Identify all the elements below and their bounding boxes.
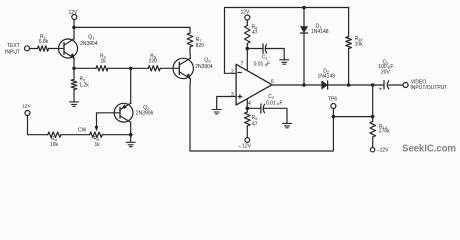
node junction — [129, 133, 133, 137]
transistor Q3 — [173, 58, 193, 78]
ground — [126, 142, 135, 146]
wire TP line — [333, 116, 372, 118]
transistor Q1 — [59, 39, 78, 59]
resistor R4 — [48, 132, 61, 137]
op-amp U1 — [236, 64, 272, 105]
wire — [372, 85, 374, 117]
svg-text:1k: 1k — [95, 142, 101, 148]
wire pin2 feedback — [225, 8, 349, 74]
node junction R12 top — [371, 83, 375, 87]
wire — [49, 48, 65, 50]
wire — [28, 116, 48, 135]
transistor Q2 — [114, 103, 133, 122]
potentiometer R5 — [90, 132, 103, 137]
node VIDEO terminal — [403, 83, 408, 88]
svg-text:SeekIC.com: SeekIC.com — [402, 144, 456, 155]
node junction TP line left — [332, 115, 336, 119]
wire — [74, 67, 96, 69]
svg-text:2N3904: 2N3904 — [80, 41, 98, 47]
svg-text:2N3906: 2N3906 — [136, 110, 154, 116]
svg-text:47: 47 — [252, 30, 258, 36]
capacitor C2 — [247, 107, 260, 109]
svg-text:+: + — [379, 87, 383, 93]
svg-text:12V: 12V — [22, 104, 31, 110]
svg-text:1.2k: 1.2k — [79, 82, 89, 88]
wire — [73, 20, 75, 28]
ground — [283, 123, 292, 127]
wire — [160, 67, 179, 69]
svg-text:220: 220 — [149, 59, 158, 65]
node junction TP line right — [371, 115, 375, 119]
node junction — [72, 26, 76, 30]
svg-text:C2: C2 — [268, 94, 275, 100]
node junction pin7 — [246, 47, 250, 51]
svg-text:6: 6 — [271, 79, 274, 85]
ground — [70, 102, 79, 106]
svg-text:TEXT: TEXT — [7, 43, 20, 49]
svg-text:2: 2 — [231, 70, 234, 76]
svg-text:47: 47 — [252, 122, 258, 128]
wire — [102, 134, 131, 136]
svg-text:TP6: TP6 — [328, 97, 337, 103]
svg-text:820: 820 — [196, 43, 205, 49]
node junction D1 top — [302, 6, 306, 10]
wire pin 7 — [246, 49, 248, 71]
resistor R12 — [372, 117, 374, 122]
svg-text:4: 4 — [248, 101, 251, 107]
capacitor C1 — [247, 48, 263, 50]
svg-text:Q3: Q3 — [204, 57, 211, 63]
resistor R8 — [246, 20, 248, 26]
node junction D1 bottom — [302, 83, 306, 87]
node 12V top-left — [72, 15, 77, 20]
diode D2 — [322, 81, 328, 89]
resistor R2 — [73, 68, 75, 79]
svg-text:INPUT/OUTPUT: INPUT/OUTPUT — [410, 85, 447, 91]
wire Q1 emitter — [73, 58, 75, 68]
node junction — [129, 67, 133, 71]
wire — [332, 109, 334, 117]
wire pin 4 — [246, 99, 248, 108]
resistor R10 — [348, 8, 350, 37]
svg-text:2N3904: 2N3904 — [195, 64, 213, 70]
node junction R10 bottom — [347, 83, 351, 87]
svg-text:12V: 12V — [69, 10, 79, 16]
svg-text:– 12V: – 12V — [238, 143, 251, 149]
wire pin3 — [217, 97, 236, 110]
svg-text:CW: CW — [78, 127, 87, 133]
wire Q3 emitter down and along bottom — [190, 79, 333, 151]
ground — [212, 110, 221, 114]
wire op-amp output — [272, 84, 322, 86]
node TEXT INPUT terminal — [25, 46, 30, 51]
svg-text:1N4148: 1N4148 — [311, 29, 329, 35]
svg-text:0.01 µF: 0.01 µF — [254, 62, 271, 68]
svg-text:–12V: –12V — [377, 147, 389, 153]
wire — [130, 135, 132, 142]
node 12V bottom-left — [25, 111, 30, 116]
wire — [30, 48, 38, 50]
svg-text:1N4148: 1N4148 — [318, 74, 336, 80]
wire — [61, 134, 90, 136]
svg-text:20V: 20V — [381, 69, 391, 75]
resistor R9 — [246, 108, 248, 112]
node -12V terminal R9 — [245, 138, 250, 143]
node -12V terminal R12 — [370, 148, 374, 152]
node TP6 terminal — [331, 104, 336, 109]
svg-text:10k: 10k — [50, 142, 59, 148]
resistor R1 — [38, 46, 49, 51]
svg-text:0.01 µF: 0.01 µF — [266, 100, 283, 106]
node junction — [72, 67, 76, 71]
svg-text:7: 7 — [241, 61, 244, 67]
node 12V mid — [245, 15, 250, 20]
svg-text:6.8k: 6.8k — [39, 39, 49, 45]
wire — [108, 67, 148, 69]
svg-text:C1: C1 — [262, 54, 269, 60]
svg-text:270k: 270k — [379, 129, 390, 135]
svg-text:12V: 12V — [241, 10, 251, 16]
wire R5 wiper — [97, 113, 121, 129]
resistor R6 — [148, 66, 160, 71]
svg-text:INPUT: INPUT — [5, 50, 20, 56]
capacitor C3 — [383, 81, 385, 89]
wire Q1 collector — [73, 27, 75, 38]
svg-text:R9: R9 — [252, 115, 259, 121]
resistor R7 — [189, 27, 191, 33]
diode D1 — [303, 8, 305, 27]
wire Q2 emitter to junction — [130, 68, 132, 103]
svg-text:10k: 10k — [355, 41, 364, 47]
node junction pin4 — [246, 107, 250, 111]
svg-text:3: 3 — [231, 92, 234, 98]
wire top rail — [74, 26, 190, 28]
svg-text:1k: 1k — [101, 59, 107, 65]
wire Q2 collector — [130, 122, 132, 134]
ground — [280, 60, 289, 64]
resistor R3 — [96, 66, 108, 71]
svg-text:Q1: Q1 — [88, 34, 95, 40]
